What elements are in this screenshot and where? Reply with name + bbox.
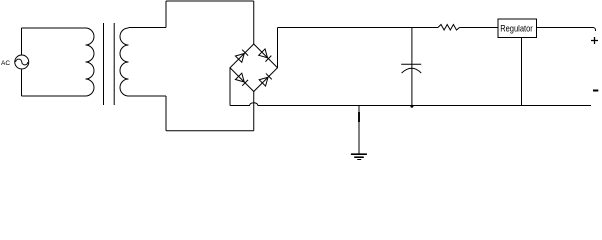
- transformer T1 core: [104, 23, 115, 105]
- wire bridge left vertex drop: [229, 68, 231, 106]
- wire secondary bottom drop: [165, 96, 167, 131]
- terminal minus: [593, 90, 598, 92]
- wire positive rail to resistor: [278, 27, 439, 29]
- wire top rail: [166, 0, 254, 2]
- diode D1: [235, 50, 248, 63]
- transformer T1 primary winding: [86, 28, 95, 96]
- capacitor C1 lead: [411, 28, 413, 106]
- transformer T1 secondary winding: [120, 28, 129, 96]
- regulator U1 box: [498, 19, 537, 38]
- wire detour riser to bridge bottom: [253, 92, 255, 131]
- capacitor C1 top plate: [401, 63, 421, 65]
- wire AC top to primary: [22, 27, 86, 29]
- ground symbol: [351, 154, 367, 160]
- resistor R1: [438, 25, 460, 31]
- wire top rail drop to bridge: [253, 1, 255, 44]
- diode D3: [235, 73, 248, 86]
- svg-text:Regulator: Regulator: [500, 24, 533, 35]
- wire AC top lead: [21, 28, 23, 55]
- wire AC bottom to primary: [22, 95, 86, 97]
- junction dot capacitor to rail: [410, 105, 413, 108]
- svg-text:AC: AC: [1, 60, 10, 67]
- bridge rectifier BR1 diamond: [230, 44, 278, 92]
- wire negative rail with hop over bridge bottom lead: [230, 103, 591, 106]
- wire regulator output: [537, 28, 596, 32]
- diode D2: [259, 49, 272, 62]
- wire resistor to regulator: [460, 27, 499, 29]
- wire secondary top: [129, 27, 167, 29]
- AC source V1: [15, 55, 29, 69]
- wire ground lead: [358, 106, 360, 155]
- wire secondary top riser: [165, 1, 167, 28]
- capacitor C1 curved plate: [402, 68, 422, 73]
- wire AC bottom lead: [21, 69, 23, 96]
- diode D4: [259, 73, 272, 86]
- wire secondary bottom: [129, 95, 167, 97]
- wire regulator ground lead: [521, 38, 523, 106]
- wire bottom detour: [166, 130, 254, 132]
- terminal plus: [591, 37, 598, 44]
- wire ground lead overlap segment: [358, 112, 360, 122]
- wire bridge right vertex riser: [277, 28, 279, 68]
